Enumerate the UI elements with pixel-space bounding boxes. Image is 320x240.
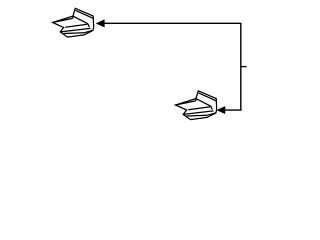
body top edge of U2 <box>196 99 211 107</box>
back thickness edge of U1 <box>64 30 93 33</box>
band edge under top of U1 <box>76 10 94 18</box>
body mid edge of U1 <box>65 24 87 27</box>
body right edge of U1 <box>88 24 89 27</box>
fold edge of U2 <box>195 99 197 101</box>
3D arrow glyph U1 (top-left) <box>53 8 94 37</box>
band edge under top of U2 <box>199 93 217 101</box>
body right edge of U2 <box>211 106 212 109</box>
body top edge of U1 <box>73 16 88 24</box>
body bottom edge of U2 <box>183 111 213 115</box>
silhouette of U1 <box>53 8 94 37</box>
nose sliver edge of U1 <box>53 18 73 22</box>
arrowhead into U2 <box>217 107 225 114</box>
silhouette of U2 <box>176 91 217 120</box>
nose sliver edge of U2 <box>176 101 196 105</box>
back thickness edge of U2 <box>187 113 216 116</box>
midpoint stub on vertical wire <box>241 66 247 68</box>
wire from U1 to U2 (right-angle polyline) <box>104 23 241 110</box>
fold edge of U1 <box>72 16 74 18</box>
body mid edge of U2 <box>188 107 210 110</box>
arrowhead into U1 <box>96 20 104 27</box>
body bottom edge of U1 <box>60 28 90 32</box>
3D arrow glyph U2 (bottom-right) <box>176 91 217 120</box>
